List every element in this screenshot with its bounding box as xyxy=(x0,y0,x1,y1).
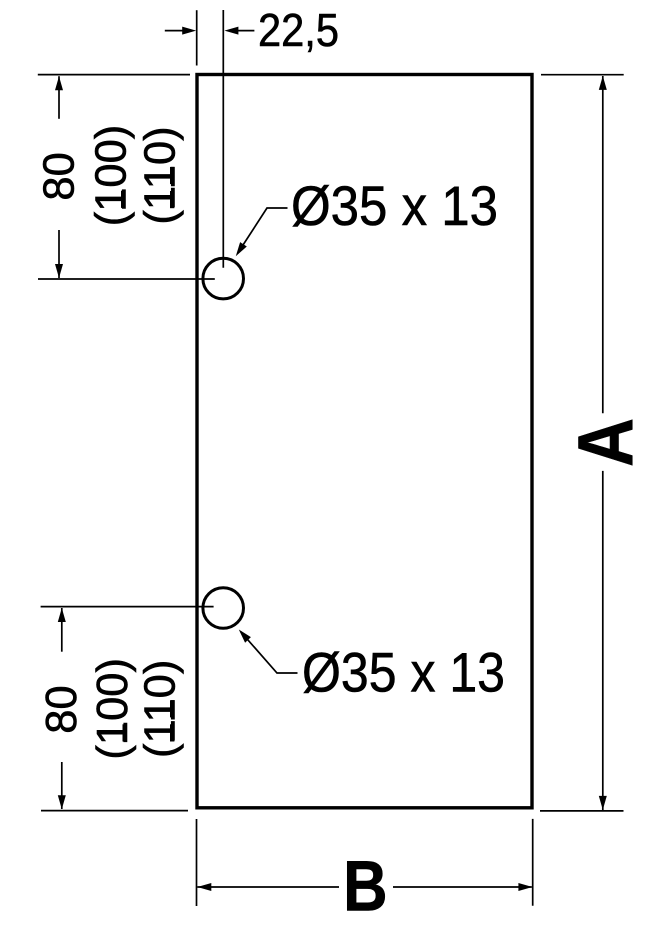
panel outline xyxy=(197,75,532,808)
svg-text:A: A xyxy=(561,418,649,467)
svg-text:(100): (100) xyxy=(89,658,137,760)
svg-text:(100): (100) xyxy=(87,125,135,227)
arrowhead 80 upper pointing up xyxy=(55,76,63,90)
foot serifs of 1s in (110) upper xyxy=(170,191,174,208)
extension line top-left (80 dim upper) xyxy=(38,74,190,76)
extension line through hole H1 center (22,5 dim) xyxy=(222,10,224,268)
svg-text:80: 80 xyxy=(38,685,86,733)
hole H1 center line xyxy=(38,278,215,280)
dimension line 22,5 right tail xyxy=(238,30,254,32)
dimension line 80 upper segment xyxy=(58,76,60,119)
dimension line B right segment xyxy=(393,886,532,888)
dimension line A lower segment xyxy=(602,471,604,810)
dimension line lower 80 lower segment xyxy=(61,762,63,809)
hinge cup hole H1 xyxy=(203,258,244,299)
svg-text:B: B xyxy=(343,848,388,926)
arrowhead lower 80 pointing up xyxy=(58,608,66,622)
dimension line 80 lower segment xyxy=(58,230,60,278)
svg-text:Ø35 x 13: Ø35 x 13 xyxy=(302,642,505,704)
foot serif of 1 in upper label xyxy=(447,221,464,225)
arrowhead B pointing right xyxy=(518,883,532,891)
arrowhead 80 upper-dim pointing down xyxy=(55,264,63,278)
leader arrowhead at hole H1 xyxy=(236,242,247,256)
dimension line B left segment xyxy=(197,886,339,888)
svg-text:22,5: 22,5 xyxy=(258,4,339,56)
arrowhead A pointing up xyxy=(599,76,607,90)
dimension line lower 80 upper segment xyxy=(61,608,63,652)
arrowhead lower 80 pointing down xyxy=(58,795,66,809)
extension line at panel left edge (22,5 dim) xyxy=(196,10,198,65)
dimension line A upper segment xyxy=(602,76,604,413)
hinge cup hole H2 xyxy=(203,588,244,629)
foot serif of 1 in lower label xyxy=(457,687,474,691)
foot serif of 1 in (100) lower xyxy=(123,724,127,741)
leader line to hole H1 xyxy=(238,208,288,254)
extension line bottom-left (80 dim lower) xyxy=(41,810,188,812)
arrowhead A pointing down xyxy=(599,796,607,810)
arrowhead B pointing left xyxy=(197,883,211,891)
extension line bottom-left (B dim) xyxy=(196,819,198,906)
extension line top-right (A dim) xyxy=(541,74,624,76)
arrowhead 22,5 pointing left xyxy=(224,27,238,35)
leader line to hole H2 xyxy=(241,632,298,674)
foot serifs of 1s in (110) lower xyxy=(170,724,174,741)
dimension line 22,5 left tail xyxy=(165,30,184,32)
hole H2 center line xyxy=(41,606,214,608)
svg-text:(110): (110) xyxy=(136,660,184,758)
svg-text:80: 80 xyxy=(36,152,84,200)
leader arrowhead at hole H2 xyxy=(239,630,251,643)
foot serif of 1 in (100) upper xyxy=(121,191,125,208)
extension line bottom-right (B dim) xyxy=(532,819,534,906)
svg-text:Ø35 x 13: Ø35 x 13 xyxy=(291,175,498,237)
arrowhead 22,5 pointing right xyxy=(182,27,196,35)
extension line bottom-right (A dim) xyxy=(540,810,624,812)
svg-text:(110): (110) xyxy=(136,126,184,224)
